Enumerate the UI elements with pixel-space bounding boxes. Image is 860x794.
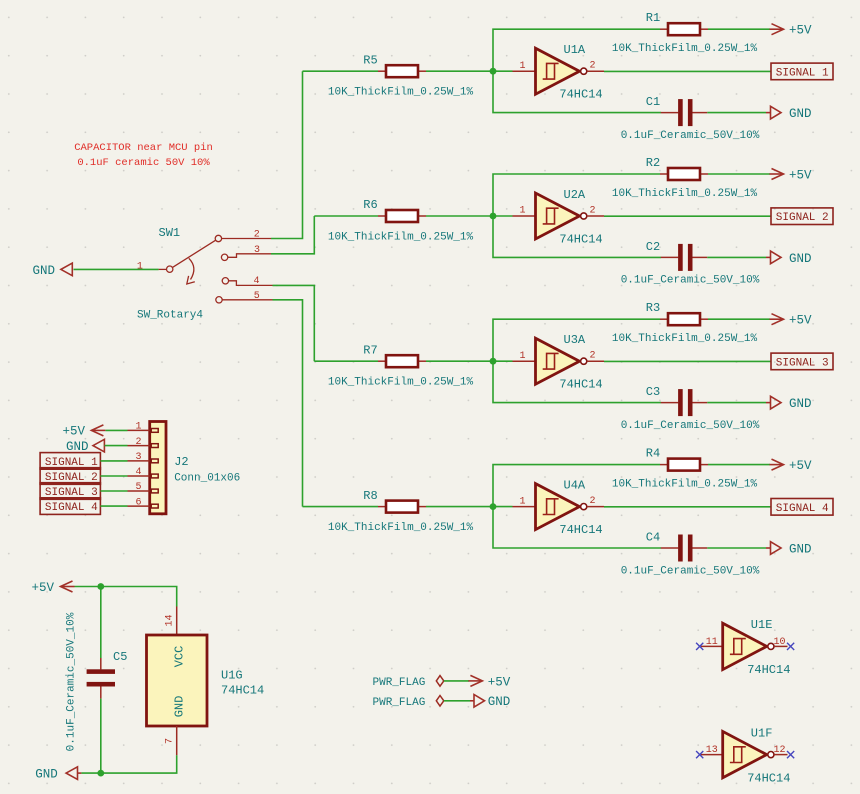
wire SW1 pin 3 to channel 2 bbox=[271, 216, 314, 254]
pin 7 U1G wire bbox=[176, 726, 178, 755]
svg-text:GND: GND bbox=[488, 695, 511, 709]
svg-text:U2A: U2A bbox=[564, 188, 586, 202]
svg-text:SIGNAL 2: SIGNAL 2 bbox=[776, 212, 829, 224]
resistor R1 bbox=[660, 23, 708, 35]
svg-text:PWR_FLAG: PWR_FLAG bbox=[373, 677, 426, 689]
wire junction to U1A input bbox=[493, 70, 513, 72]
svg-text:1: 1 bbox=[519, 206, 525, 217]
svg-text:0.1uF_Ceramic_50V_10%: 0.1uF_Ceramic_50V_10% bbox=[621, 565, 760, 577]
svg-text:10K_ThickFilm_0.25W_1%: 10K_ThickFilm_0.25W_1% bbox=[328, 522, 474, 534]
svg-text:74HC14: 74HC14 bbox=[559, 523, 602, 537]
power label +5V (flag) bbox=[468, 675, 510, 689]
power label GND (flag) bbox=[470, 695, 510, 710]
wire C5 to GND rail bbox=[100, 699, 102, 774]
wire U3A output to SIGNAL 3 bbox=[604, 360, 771, 362]
svg-text:2: 2 bbox=[135, 437, 141, 448]
svg-text:1: 1 bbox=[519, 61, 525, 72]
svg-text:R2: R2 bbox=[646, 156, 660, 170]
global label SIGNAL 2 bbox=[771, 208, 833, 225]
wire SW1 pin 2 to channel 1 bbox=[271, 71, 303, 238]
svg-text:74HC14: 74HC14 bbox=[221, 683, 264, 697]
svg-text:10K_ThickFilm_0.25W_1%: 10K_ThickFilm_0.25W_1% bbox=[328, 87, 474, 99]
wire SW1 pin 5 to channel 4 bbox=[273, 300, 303, 507]
capacitor C3 bbox=[661, 389, 708, 416]
svg-text:Conn_01x06: Conn_01x06 bbox=[174, 473, 240, 485]
svg-text:10K_ThickFilm_0.25W_1%: 10K_ThickFilm_0.25W_1% bbox=[328, 232, 474, 244]
svg-text:R5: R5 bbox=[363, 53, 377, 67]
svg-text:GND: GND bbox=[789, 397, 812, 411]
svg-text:C2: C2 bbox=[646, 240, 660, 254]
wire U4A output to SIGNAL 4 bbox=[604, 506, 771, 508]
capacitor C2 bbox=[661, 244, 708, 271]
power label GND (switch common) bbox=[33, 263, 73, 278]
wire +5V rail bbox=[75, 587, 177, 607]
svg-text:74HC14: 74HC14 bbox=[559, 88, 602, 102]
svg-text:SIGNAL 1: SIGNAL 1 bbox=[776, 67, 829, 79]
no-connect U1E output bbox=[787, 643, 794, 650]
junction node ch2 bbox=[490, 213, 497, 220]
svg-text:U1F: U1F bbox=[751, 726, 773, 740]
svg-text:U4A: U4A bbox=[564, 478, 586, 492]
resistor R5 bbox=[378, 65, 426, 77]
svg-text:R8: R8 bbox=[363, 489, 377, 503]
resistor R7 bbox=[378, 355, 426, 367]
svg-text:0.1uF_Ceramic_50V_10%: 0.1uF_Ceramic_50V_10% bbox=[66, 612, 78, 751]
junction node ch1 bbox=[490, 68, 497, 75]
svg-text:GND: GND bbox=[789, 107, 812, 121]
svg-text:U3A: U3A bbox=[564, 333, 586, 347]
svg-text:+5V: +5V bbox=[789, 24, 812, 38]
wire bbox=[100, 460, 127, 462]
capacitor C4 bbox=[661, 535, 708, 562]
power label GND (rail) bbox=[35, 767, 81, 782]
power label +5V bbox=[770, 459, 813, 473]
resistor R6 bbox=[378, 210, 426, 222]
svg-text:SW_Rotary4: SW_Rotary4 bbox=[137, 309, 203, 321]
no-connect U1F output bbox=[787, 751, 794, 758]
svg-text:74HC14: 74HC14 bbox=[559, 378, 602, 392]
power label GND bbox=[766, 542, 812, 557]
wire C1 to GND bbox=[707, 112, 766, 114]
svg-text:1: 1 bbox=[135, 422, 141, 433]
wire R6 to junction bbox=[426, 215, 493, 217]
svg-text:5: 5 bbox=[135, 482, 141, 493]
power label +5V (rail) bbox=[31, 581, 74, 595]
junction node ch3 bbox=[490, 358, 497, 365]
power unit U1G 74HC14 bbox=[147, 635, 208, 726]
svg-text:10: 10 bbox=[773, 637, 785, 648]
svg-text:12: 12 bbox=[773, 745, 785, 756]
wire junction to U4A input bbox=[493, 506, 513, 508]
wire R1 to +5V bbox=[708, 28, 770, 30]
svg-text:R7: R7 bbox=[363, 343, 377, 357]
svg-text:C1: C1 bbox=[646, 95, 660, 109]
svg-text:13: 13 bbox=[706, 745, 718, 756]
wire GND rail bbox=[81, 755, 176, 773]
svg-text:5: 5 bbox=[254, 291, 260, 302]
power label +5V bbox=[770, 24, 813, 38]
resistor R8 bbox=[378, 501, 426, 513]
global label SIGNAL 3 bbox=[771, 353, 833, 370]
power label GND (J2 pin 2) bbox=[66, 439, 104, 454]
inverter U1F 74HC14 spare bbox=[701, 731, 788, 777]
wire bus to R6 bbox=[314, 215, 378, 217]
wire junction down to C1 bbox=[493, 71, 661, 112]
svg-text:0.1uF ceramic 50V 10%: 0.1uF ceramic 50V 10% bbox=[77, 157, 210, 169]
capacitor C1 bbox=[661, 99, 708, 126]
svg-text:1: 1 bbox=[519, 351, 525, 362]
global label SIGNAL 1 (J2 pin 3) bbox=[40, 453, 100, 470]
svg-text:R6: R6 bbox=[363, 198, 377, 212]
power label GND bbox=[766, 251, 812, 266]
svg-text:10K_ThickFilm_0.25W_1%: 10K_ThickFilm_0.25W_1% bbox=[612, 43, 758, 55]
inverter U1A 74HC14 schmitt bbox=[513, 48, 605, 94]
wire bbox=[100, 505, 127, 507]
wire C3 to GND bbox=[707, 402, 766, 404]
wire R2 to +5V bbox=[708, 173, 770, 175]
svg-text:4: 4 bbox=[135, 467, 141, 478]
power label GND bbox=[766, 396, 812, 411]
note text CAPACITOR near MCU pin bbox=[74, 142, 213, 169]
svg-text:GND: GND bbox=[33, 264, 56, 278]
wire GND to SW1 pin 1 bbox=[74, 268, 159, 270]
svg-text:+5V: +5V bbox=[789, 314, 812, 328]
svg-text:+5V: +5V bbox=[789, 168, 812, 182]
svg-text:C4: C4 bbox=[646, 531, 660, 545]
svg-text:2: 2 bbox=[254, 229, 260, 240]
svg-text:CAPACITOR near MCU pin: CAPACITOR near MCU pin bbox=[74, 142, 213, 154]
wire junction down to C3 bbox=[493, 361, 661, 402]
wire U1A output to SIGNAL 1 bbox=[604, 70, 771, 72]
svg-text:U1E: U1E bbox=[751, 618, 773, 632]
svg-text:C5: C5 bbox=[113, 650, 127, 664]
wire +5V junction down to C5 bbox=[100, 587, 102, 659]
svg-text:74HC14: 74HC14 bbox=[559, 233, 602, 247]
svg-text:R1: R1 bbox=[646, 11, 660, 25]
global label SIGNAL 2 (J2 pin 4) bbox=[40, 468, 100, 485]
wire R3 to +5V bbox=[708, 318, 770, 320]
wire bbox=[100, 475, 127, 477]
svg-text:SIGNAL 4: SIGNAL 4 bbox=[776, 503, 829, 515]
wire R4 to +5V bbox=[708, 464, 770, 466]
svg-text:14: 14 bbox=[165, 614, 176, 626]
no-connect U1F input bbox=[696, 751, 703, 758]
svg-text:C3: C3 bbox=[646, 385, 660, 399]
resistor R3 bbox=[660, 313, 708, 325]
power flag PWR_FLAG (GND) bbox=[436, 696, 470, 707]
svg-text:SIGNAL 4: SIGNAL 4 bbox=[45, 502, 98, 514]
junction GND rail bbox=[97, 770, 104, 777]
svg-text:0.1uF_Ceramic_50V_10%: 0.1uF_Ceramic_50V_10% bbox=[621, 420, 760, 432]
svg-text:10K_ThickFilm_0.25W_1%: 10K_ThickFilm_0.25W_1% bbox=[612, 333, 758, 345]
svg-text:2: 2 bbox=[589, 205, 595, 216]
svg-text:+5V: +5V bbox=[31, 581, 54, 595]
svg-text:74HC14: 74HC14 bbox=[747, 663, 790, 677]
resistor R2 bbox=[660, 168, 708, 180]
inverter U4A 74HC14 schmitt bbox=[513, 484, 605, 530]
power label +5V (J2 pin 1) bbox=[63, 425, 106, 439]
svg-text:10K_ThickFilm_0.25W_1%: 10K_ThickFilm_0.25W_1% bbox=[328, 377, 474, 389]
wire C4 to GND bbox=[707, 547, 766, 549]
svg-text:2: 2 bbox=[589, 351, 595, 362]
inverter U2A 74HC14 schmitt bbox=[513, 193, 605, 239]
wire J2 pin 2 to GND bbox=[105, 445, 128, 447]
inverter U3A 74HC14 schmitt bbox=[513, 338, 605, 384]
wire bus to R8 bbox=[303, 506, 379, 508]
svg-text:GND: GND bbox=[789, 252, 812, 266]
svg-text:10K_ThickFilm_0.25W_1%: 10K_ThickFilm_0.25W_1% bbox=[612, 188, 758, 200]
svg-text:+5V: +5V bbox=[488, 675, 511, 689]
svg-text:VCC: VCC bbox=[173, 646, 187, 668]
svg-text:GND: GND bbox=[173, 696, 187, 718]
power label GND bbox=[766, 106, 812, 121]
wire bus to R7 bbox=[314, 360, 378, 362]
svg-text:0.1uF_Ceramic_50V_10%: 0.1uF_Ceramic_50V_10% bbox=[621, 130, 760, 142]
connector J2 Conn_01x06 bbox=[128, 422, 167, 514]
power label +5V bbox=[770, 314, 813, 328]
power label +5V bbox=[770, 168, 813, 182]
wire U2A output to SIGNAL 2 bbox=[604, 215, 771, 217]
wire junction down to C2 bbox=[493, 216, 661, 257]
svg-text:4: 4 bbox=[253, 276, 259, 287]
wire junction to U3A input bbox=[493, 360, 513, 362]
global label SIGNAL 1 bbox=[771, 63, 833, 80]
wire R8 to junction bbox=[426, 506, 493, 508]
wire J2 pin 1 to +5V bbox=[106, 429, 128, 431]
svg-text:+5V: +5V bbox=[63, 425, 86, 439]
svg-text:J2: J2 bbox=[174, 455, 188, 469]
svg-text:+5V: +5V bbox=[789, 459, 812, 473]
svg-text:3: 3 bbox=[135, 452, 141, 463]
wire junction down to C4 bbox=[493, 507, 661, 548]
svg-text:10K_ThickFilm_0.25W_1%: 10K_ThickFilm_0.25W_1% bbox=[612, 479, 758, 491]
wire R7 to junction bbox=[426, 360, 493, 362]
global label SIGNAL 3 (J2 pin 5) bbox=[40, 483, 100, 500]
svg-text:R4: R4 bbox=[646, 446, 660, 460]
wire bbox=[100, 490, 127, 492]
svg-text:1: 1 bbox=[519, 496, 525, 507]
svg-text:GND: GND bbox=[789, 542, 812, 556]
wire SW1 pin 4 to channel 3 bbox=[273, 285, 315, 361]
no-connect U1E input bbox=[696, 643, 703, 650]
wire junction up to R4 bbox=[493, 465, 660, 507]
junction node ch4 bbox=[490, 503, 497, 510]
wire C2 to GND bbox=[707, 256, 766, 258]
svg-text:R3: R3 bbox=[646, 301, 660, 315]
pin 14 U1G wire bbox=[176, 607, 178, 636]
inverter U1E 74HC14 spare bbox=[701, 623, 788, 669]
wire junction to U2A input bbox=[493, 215, 513, 217]
switch SW1 SW_Rotary4 bbox=[159, 235, 273, 303]
svg-text:11: 11 bbox=[706, 637, 718, 648]
power flag PWR_FLAG (+5V) bbox=[436, 676, 469, 687]
svg-text:SIGNAL 3: SIGNAL 3 bbox=[776, 357, 829, 369]
svg-text:U1A: U1A bbox=[564, 43, 586, 57]
global label SIGNAL 4 (J2 pin 6) bbox=[40, 498, 100, 515]
wire junction up to R1 bbox=[493, 29, 660, 71]
resistor R4 bbox=[660, 459, 708, 471]
wire bus to R5 bbox=[303, 70, 379, 72]
svg-text:PWR_FLAG: PWR_FLAG bbox=[373, 697, 426, 709]
svg-text:0.1uF_Ceramic_50V_10%: 0.1uF_Ceramic_50V_10% bbox=[621, 275, 760, 287]
capacitor C5 bbox=[87, 658, 115, 699]
svg-text:2: 2 bbox=[589, 496, 595, 507]
svg-text:6: 6 bbox=[135, 497, 141, 508]
svg-text:GND: GND bbox=[35, 768, 58, 782]
svg-text:SW1: SW1 bbox=[159, 226, 181, 240]
wire junction up to R3 bbox=[493, 319, 660, 361]
svg-text:3: 3 bbox=[254, 245, 260, 256]
junction +5V rail bbox=[97, 583, 104, 590]
global label SIGNAL 4 bbox=[771, 499, 833, 516]
svg-text:7: 7 bbox=[165, 738, 176, 744]
svg-text:1: 1 bbox=[137, 261, 143, 272]
wire junction up to R2 bbox=[493, 174, 660, 216]
svg-text:2: 2 bbox=[589, 61, 595, 72]
svg-text:U1G: U1G bbox=[221, 668, 243, 682]
svg-text:74HC14: 74HC14 bbox=[747, 771, 790, 785]
wire R5 to junction bbox=[426, 70, 493, 72]
